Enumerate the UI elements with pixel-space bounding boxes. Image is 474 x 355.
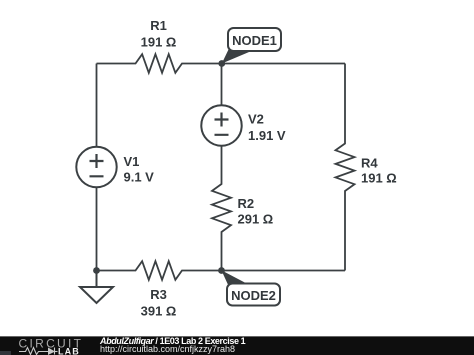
svg-text:LAB: LAB — [58, 347, 80, 355]
svg-text:R3: R3 — [150, 287, 167, 302]
svg-text:V1: V1 — [124, 154, 140, 169]
svg-text:NODE2: NODE2 — [231, 288, 276, 303]
svg-text:391 Ω: 391 Ω — [141, 304, 177, 319]
svg-text:1.91 V: 1.91 V — [248, 128, 286, 143]
svg-text:R2: R2 — [238, 196, 255, 211]
svg-text:291 Ω: 291 Ω — [238, 212, 274, 227]
svg-text:R4: R4 — [361, 155, 378, 170]
svg-text:V2: V2 — [248, 112, 264, 127]
svg-text:NODE1: NODE1 — [232, 33, 277, 48]
svg-text:9.1 V: 9.1 V — [124, 170, 155, 185]
svg-text:191 Ω: 191 Ω — [361, 171, 397, 186]
svg-text:191 Ω: 191 Ω — [141, 35, 177, 50]
svg-text:R1: R1 — [150, 18, 167, 33]
